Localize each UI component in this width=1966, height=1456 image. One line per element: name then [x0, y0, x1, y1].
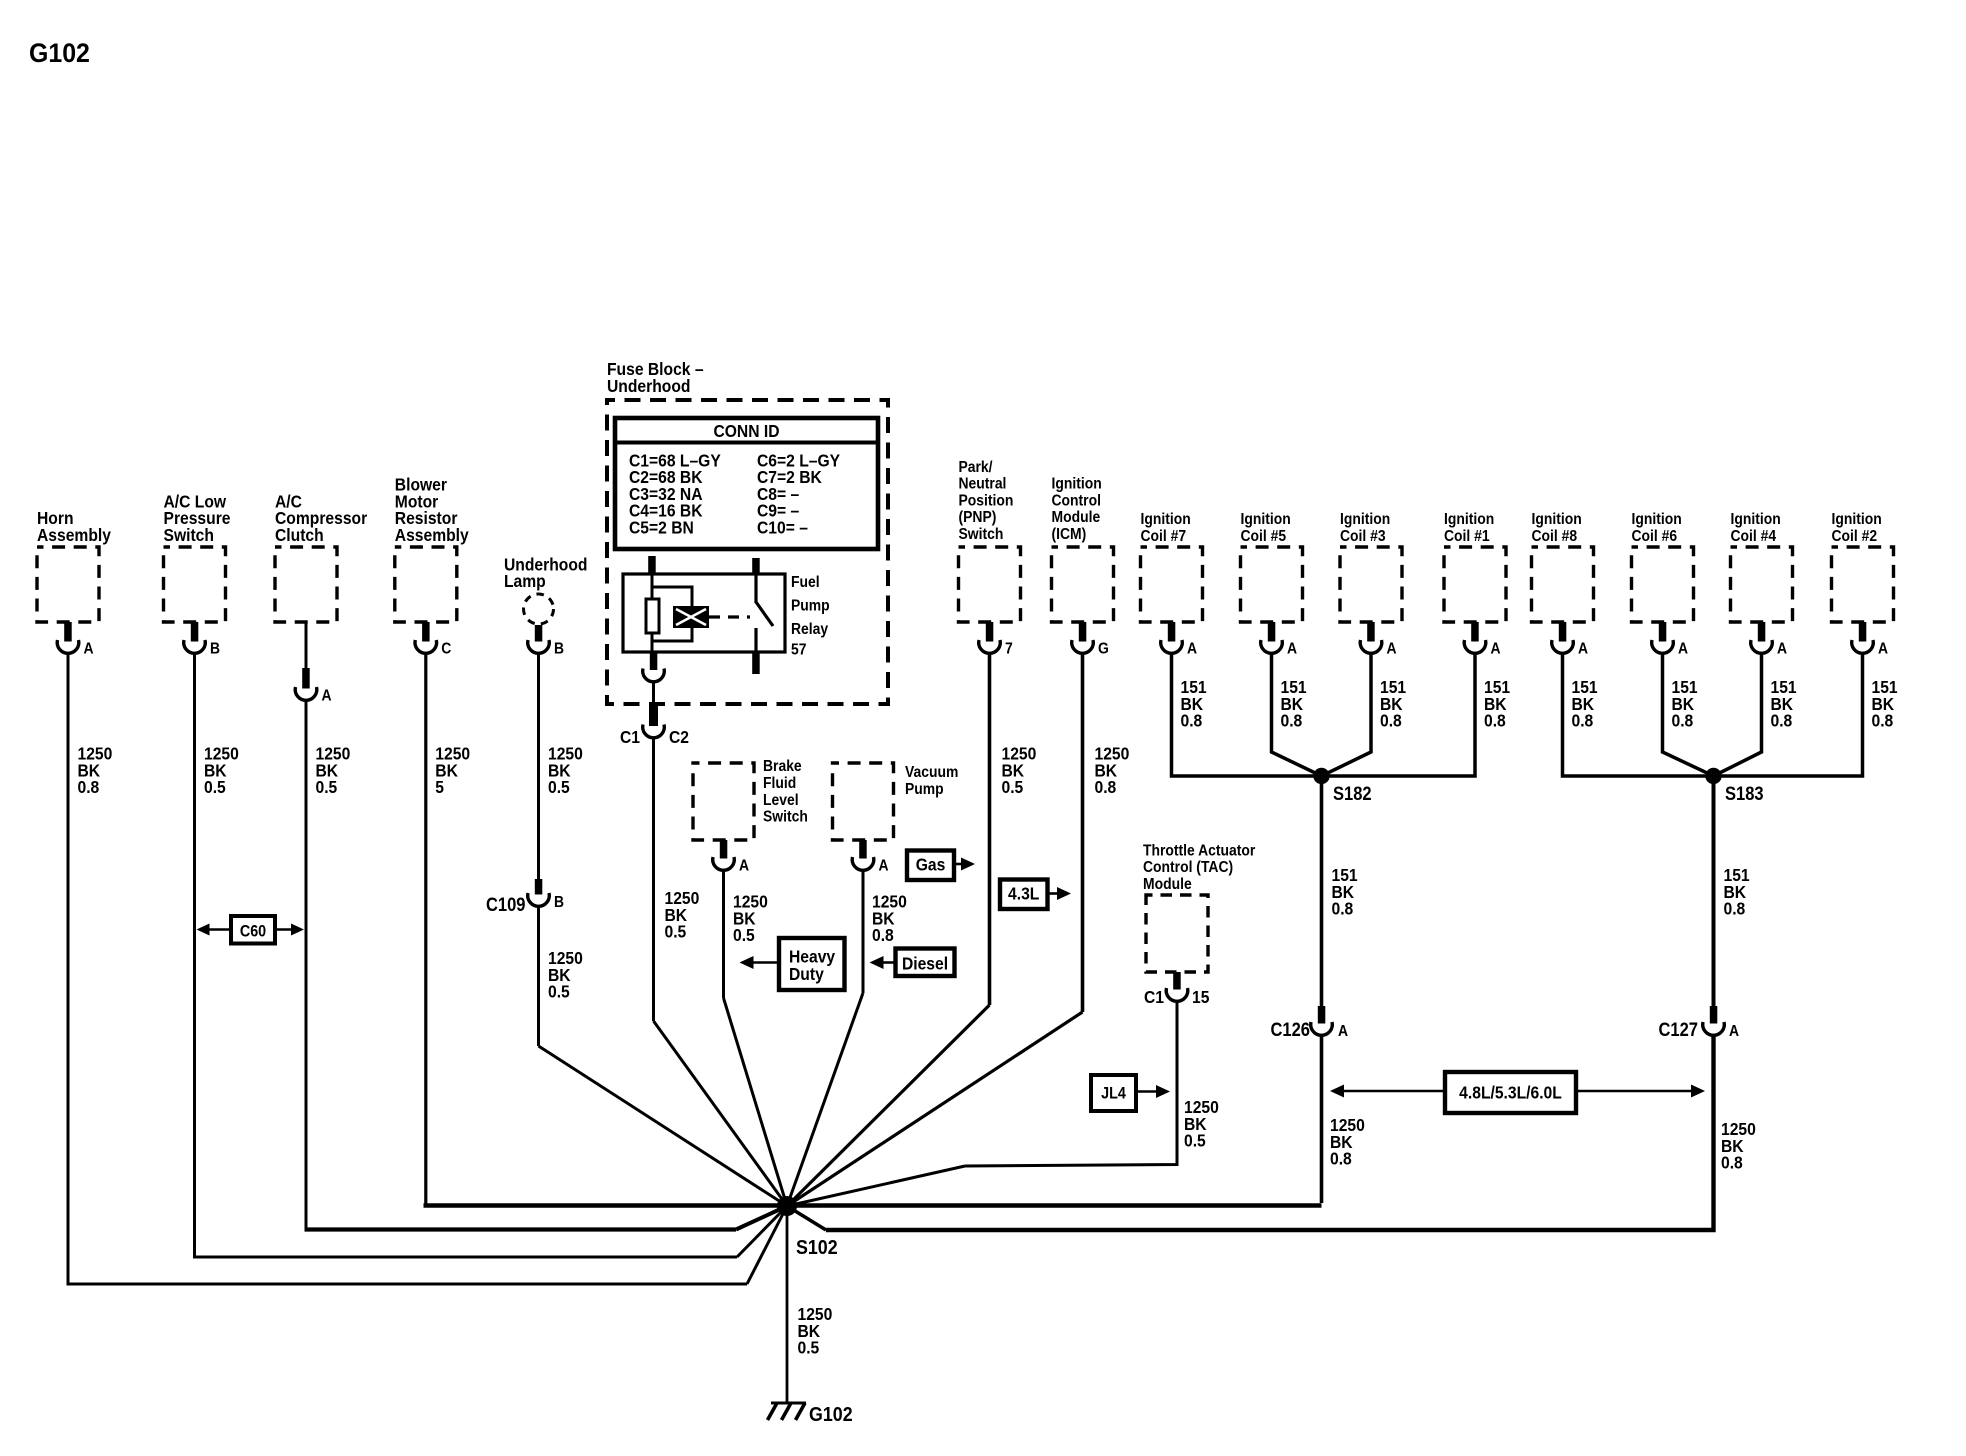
svg-text:Underhood: Underhood: [607, 376, 690, 396]
svg-text:Control (TAC): Control (TAC): [1143, 858, 1233, 876]
svg-text:A: A: [84, 640, 94, 658]
svg-text:4.8L/5.3L/6.0L: 4.8L/5.3L/6.0L: [1459, 1082, 1562, 1102]
svg-text:0.8: 0.8: [1380, 711, 1402, 731]
svg-text:Fluid: Fluid: [763, 774, 796, 792]
svg-text:Throttle Actuator: Throttle Actuator: [1143, 842, 1255, 860]
svg-text:Coil #6: Coil #6: [1632, 527, 1678, 545]
svg-text:Assembly: Assembly: [395, 525, 470, 545]
svg-text:Clutch: Clutch: [275, 525, 324, 545]
svg-text:A: A: [1187, 640, 1197, 658]
svg-text:Lamp: Lamp: [504, 571, 546, 591]
svg-text:0.8: 0.8: [1572, 711, 1594, 731]
svg-text:0.8: 0.8: [1872, 711, 1894, 731]
svg-text:A: A: [1287, 640, 1297, 658]
svg-text:A: A: [322, 687, 332, 705]
svg-text:0.5: 0.5: [548, 777, 570, 797]
svg-text:A: A: [1729, 1022, 1739, 1040]
svg-text:G: G: [1098, 640, 1109, 658]
svg-text:JL4: JL4: [1101, 1085, 1126, 1103]
svg-text:0.8: 0.8: [1672, 711, 1694, 731]
svg-text:Module: Module: [1143, 875, 1192, 893]
svg-text:Coil #1: Coil #1: [1444, 527, 1490, 545]
svg-text:Coil #3: Coil #3: [1340, 527, 1386, 545]
svg-text:0.8: 0.8: [1330, 1149, 1352, 1169]
svg-text:Coil #4: Coil #4: [1731, 527, 1777, 545]
svg-text:(PNP): (PNP): [959, 508, 997, 526]
svg-text:A: A: [879, 857, 889, 875]
svg-text:Ignition: Ignition: [1241, 510, 1291, 528]
svg-text:C1: C1: [1144, 987, 1164, 1007]
svg-text:B: B: [554, 893, 564, 911]
svg-text:A: A: [1578, 640, 1588, 658]
svg-text:0.8: 0.8: [1721, 1153, 1743, 1173]
svg-text:G102: G102: [809, 1404, 853, 1426]
svg-text:A: A: [1338, 1022, 1348, 1040]
svg-text:Gas: Gas: [916, 854, 946, 874]
svg-text:Ignition: Ignition: [1052, 475, 1102, 493]
svg-text:Relay: Relay: [791, 620, 829, 638]
svg-text:0.5: 0.5: [798, 1338, 820, 1358]
svg-text:A: A: [739, 857, 749, 875]
svg-text:Ignition: Ignition: [1832, 510, 1882, 528]
svg-text:C109: C109: [486, 894, 526, 915]
svg-text:Park/: Park/: [959, 458, 994, 476]
svg-text:Coil #2: Coil #2: [1832, 527, 1878, 545]
svg-text:0.5: 0.5: [733, 925, 755, 945]
svg-text:0.5: 0.5: [204, 777, 226, 797]
svg-text:C1: C1: [620, 727, 640, 747]
svg-text:7: 7: [1005, 640, 1013, 658]
svg-text:(ICM): (ICM): [1052, 525, 1087, 543]
svg-text:C127: C127: [1659, 1019, 1699, 1040]
svg-text:B: B: [210, 640, 220, 658]
svg-text:Ignition: Ignition: [1532, 510, 1582, 528]
svg-text:0.8: 0.8: [1095, 777, 1117, 797]
svg-text:S102: S102: [796, 1237, 838, 1259]
svg-text:B: B: [554, 640, 564, 658]
svg-text:A: A: [1678, 640, 1688, 658]
svg-text:Ignition: Ignition: [1141, 510, 1191, 528]
svg-text:Ignition: Ignition: [1444, 510, 1494, 528]
svg-text:Coil #5: Coil #5: [1241, 527, 1287, 545]
svg-text:Coil #7: Coil #7: [1141, 527, 1187, 545]
svg-text:S183: S183: [1725, 783, 1764, 804]
svg-text:0.5: 0.5: [1002, 777, 1024, 797]
svg-text:5: 5: [435, 777, 444, 797]
svg-text:Diesel: Diesel: [902, 953, 948, 973]
svg-text:15: 15: [1192, 987, 1209, 1007]
svg-text:0.8: 0.8: [872, 925, 894, 945]
svg-text:Position: Position: [959, 492, 1014, 510]
svg-text:0.8: 0.8: [1181, 711, 1203, 731]
svg-text:0.5: 0.5: [316, 777, 338, 797]
svg-text:Fuel: Fuel: [791, 573, 820, 591]
svg-text:CONN ID: CONN ID: [713, 421, 779, 441]
svg-text:C10= –: C10= –: [757, 517, 808, 537]
svg-text:Module: Module: [1052, 508, 1101, 526]
svg-text:Ignition: Ignition: [1632, 510, 1682, 528]
svg-text:0.8: 0.8: [78, 777, 100, 797]
svg-text:Vacuum: Vacuum: [905, 763, 958, 781]
svg-text:Switch: Switch: [763, 808, 808, 826]
svg-text:Coil #8: Coil #8: [1532, 527, 1578, 545]
svg-text:S182: S182: [1333, 783, 1372, 804]
svg-text:Ignition: Ignition: [1731, 510, 1781, 528]
svg-text:57: 57: [791, 641, 806, 659]
svg-text:C126: C126: [1271, 1019, 1311, 1040]
svg-text:A: A: [1491, 640, 1501, 658]
svg-text:0.8: 0.8: [1771, 711, 1793, 731]
svg-text:C5=2 BN: C5=2 BN: [629, 517, 694, 537]
svg-text:C2: C2: [669, 727, 689, 747]
svg-text:A: A: [1387, 640, 1397, 658]
svg-text:0.8: 0.8: [1724, 899, 1746, 919]
svg-text:C60: C60: [240, 923, 266, 941]
svg-text:A: A: [1777, 640, 1787, 658]
svg-text:0.8: 0.8: [1484, 711, 1506, 731]
svg-text:Level: Level: [763, 791, 799, 809]
svg-text:0.5: 0.5: [1184, 1131, 1206, 1151]
svg-text:Neutral: Neutral: [959, 475, 1007, 493]
svg-text:Duty: Duty: [789, 964, 824, 984]
svg-text:Pump: Pump: [791, 597, 830, 615]
svg-text:Switch: Switch: [164, 525, 214, 545]
svg-text:0.5: 0.5: [548, 982, 570, 1002]
svg-text:Control: Control: [1052, 492, 1101, 510]
svg-text:C: C: [441, 640, 451, 658]
svg-text:G102: G102: [29, 39, 90, 68]
svg-text:0.8: 0.8: [1332, 899, 1354, 919]
svg-text:4.3L: 4.3L: [1008, 883, 1039, 903]
svg-text:Ignition: Ignition: [1340, 510, 1390, 528]
svg-text:0.8: 0.8: [1281, 711, 1303, 731]
svg-text:Assembly: Assembly: [37, 525, 112, 545]
svg-text:A: A: [1878, 640, 1888, 658]
svg-text:Brake: Brake: [763, 757, 802, 775]
svg-text:0.5: 0.5: [665, 922, 687, 942]
svg-text:Pump: Pump: [905, 780, 944, 798]
svg-text:Switch: Switch: [959, 525, 1004, 543]
